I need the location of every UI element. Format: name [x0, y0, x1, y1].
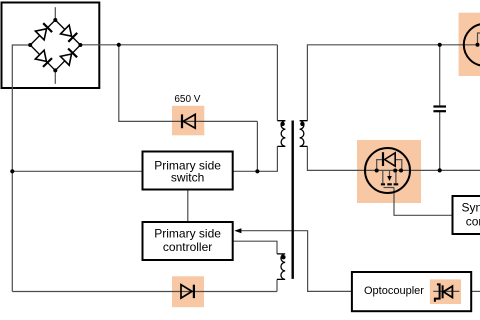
Q1 body diode triangle [385, 153, 396, 166]
Q1 drain terminal dot [375, 169, 379, 173]
wire switch to transformer primary bottom [233, 146, 278, 171]
junction dot cap bottom [438, 168, 442, 172]
bridge diode D4 bottom-right [60, 49, 77, 66]
Q1 bulk arrow [389, 171, 391, 177]
wire drop from junction to clamp diode row [119, 45, 258, 122]
transformer T1 auxiliary polarity dot [281, 255, 285, 259]
bridge node right [78, 43, 82, 47]
transformer T1 primary winding [277, 121, 285, 147]
highlight of bottom diode D6 [172, 276, 204, 307]
svg-text:Optocoupler: Optocoupler [364, 285, 424, 297]
bridge diamond edges [30, 20, 80, 70]
wire controller to aux winding [233, 241, 277, 254]
junction dot bridge out top [117, 43, 121, 47]
optocoupler LED bent lead [435, 284, 440, 301]
wire secondary top rail to output [307, 45, 477, 121]
svg-text:650 V: 650 V [174, 94, 200, 105]
highlight of MOSFET Q2 top right [459, 13, 480, 76]
bridge AC stub top [54, 7, 56, 20]
transformer T1 secondary winding [300, 121, 308, 147]
optocoupler box [352, 272, 471, 311]
Q1 channel dashes [381, 183, 398, 185]
primary side controller label [154, 227, 221, 255]
wire bottom ground rail [12, 291, 277, 293]
optocoupler LED triangle [443, 286, 452, 297]
bridge diode D3 bottom-left [35, 50, 52, 67]
output FET Q2 circle partial [464, 24, 480, 66]
svg-text:switch: switch [171, 170, 204, 184]
bridge rectifier box [2, 3, 100, 89]
svg-text:controller: controller [466, 214, 480, 228]
svg-text:Synchronous: Synchronous [462, 201, 480, 215]
wire aux winding bottom to ground rail [276, 279, 278, 291]
junction dot cap top [438, 43, 442, 47]
optocoupler LED cathode bar [442, 285, 444, 298]
junction dot switch node [255, 169, 259, 173]
Q1 body diode loop [377, 160, 402, 171]
Q1 gate electrode [384, 187, 395, 189]
transformer T1 secondary polarity dot [300, 122, 304, 126]
wire switch to controller link [187, 190, 189, 223]
sync rectifier controller box [453, 196, 480, 234]
svg-text:Primary side: Primary side [154, 227, 221, 241]
Q1 body diode cathode bar [382, 152, 384, 166]
wire left rail to primary side switch [12, 170, 142, 172]
highlight of MOSFET Q1 [357, 140, 421, 203]
wire gate of Q1 to sync controller [394, 188, 453, 216]
capacitor C1 plates [433, 107, 446, 112]
Q1 drain drop [382, 171, 384, 184]
primary side switch label [154, 158, 221, 184]
wire feedback from optocoupler to primary controller [241, 231, 352, 292]
Q1 source drop [395, 171, 397, 184]
sync rectifier controller label [462, 201, 480, 229]
Q2 terminal dot [476, 43, 480, 47]
bridge diode D2 top-right [61, 25, 78, 42]
bridge node bottom [53, 68, 57, 72]
wire capacitor bottom stem [439, 112, 441, 170]
transformer T1 primary polarity dot [280, 122, 284, 126]
bridge AC stub bottom [54, 70, 56, 83]
Q1 source terminal dot [393, 169, 397, 173]
highlight of 650V diode D5 [172, 106, 204, 136]
transformer T1 auxiliary winding [277, 254, 285, 280]
wire clamp diode to switch node [256, 121, 258, 171]
Q1 body terminal dot [399, 169, 403, 173]
wire bridge left node down left rail [12, 45, 30, 292]
wire top rail primary from bridge to transformer [80, 44, 277, 46]
bridge diode D1 top-left [35, 23, 52, 40]
bridge node left [28, 43, 32, 47]
primary side switch box [143, 152, 233, 190]
sync FET Q1 circle [365, 148, 410, 193]
junction dot left rail switch [10, 169, 14, 173]
Q2 body diode loop partial [478, 33, 480, 45]
optocoupler LED wire [433, 290, 459, 292]
bridge node top [53, 18, 57, 22]
svg-text:controller: controller [163, 240, 212, 254]
wire transformer primary top lead [276, 45, 278, 121]
wire optocoupler right lead [471, 290, 480, 292]
primary side controller box [143, 222, 233, 260]
wire secondary bottom rail through sync FET [307, 146, 480, 170]
wire capacitor top stem [439, 45, 441, 106]
highlight of optocoupler LED [430, 279, 461, 304]
transformer T1 core [292, 121, 294, 279]
clamp diode D5 650V [182, 114, 195, 128]
ground rail diode D6 [181, 285, 194, 298]
arrowhead into primary side controller [234, 228, 241, 233]
